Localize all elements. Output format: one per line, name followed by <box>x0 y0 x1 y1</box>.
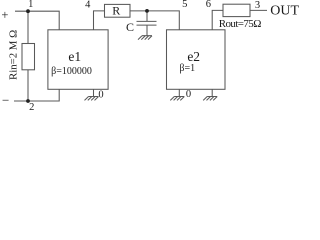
svg-text:Rin=2 M Ω: Rin=2 M Ω <box>8 30 20 80</box>
svg-text:OUT: OUT <box>270 4 299 19</box>
svg-text:β=100000: β=100000 <box>51 66 92 77</box>
resistor Rout box <box>223 4 250 16</box>
wire node3: Rout to OUT <box>250 9 267 11</box>
dependent source e2 box <box>167 30 226 90</box>
svg-text:C: C <box>126 20 134 34</box>
resistor Rin box <box>22 44 35 70</box>
ground under C <box>138 36 152 40</box>
svg-text:1: 1 <box>28 0 33 10</box>
junction node 5 <box>145 9 149 13</box>
svg-text:6: 6 <box>206 0 211 10</box>
dependent source e1 box <box>48 30 108 90</box>
capacitor C stub top <box>146 11 148 21</box>
junction node 1 <box>26 9 30 13</box>
svg-text:0: 0 <box>98 90 103 101</box>
svg-text:−: − <box>2 92 9 107</box>
ground stub e2 left <box>178 89 180 96</box>
svg-text:e2: e2 <box>187 49 200 64</box>
ground e1 <box>85 97 99 101</box>
capacitor C stub bottom <box>146 25 148 36</box>
svg-text:0: 0 <box>186 89 191 100</box>
ground stub e2 right <box>211 89 213 96</box>
wire node5: R to junction to e2 top <box>130 11 179 30</box>
svg-text:R: R <box>112 4 120 18</box>
svg-text:4: 4 <box>85 0 91 10</box>
svg-text:+: + <box>1 8 8 22</box>
ground e2 left <box>170 97 184 101</box>
svg-text:β=1: β=1 <box>179 63 195 74</box>
svg-text:e1: e1 <box>68 49 81 64</box>
wire node2 bottom: minus terminal to e1 bottom <box>14 89 59 101</box>
wire node4: e1 top to R <box>94 11 105 30</box>
wire node6: e2 top to Rout <box>212 10 223 29</box>
wire Rin top drop <box>27 11 29 43</box>
resistor R box <box>105 4 131 17</box>
wire node1 top: plus terminal to e1 top <box>15 11 59 30</box>
svg-text:Rout=75Ω: Rout=75Ω <box>219 18 261 30</box>
junction node 2 <box>26 99 30 103</box>
capacitor C plates <box>137 21 157 25</box>
svg-text:2: 2 <box>29 102 34 113</box>
ground stub e1 <box>93 89 95 96</box>
svg-text:5: 5 <box>182 0 187 10</box>
wire Rin bottom drop <box>27 70 29 101</box>
ground e2 right <box>203 97 217 101</box>
svg-text:3: 3 <box>255 0 260 11</box>
